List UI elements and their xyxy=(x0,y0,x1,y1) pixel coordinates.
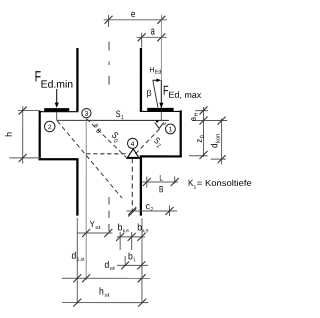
svg-text:1: 1 xyxy=(133,257,135,263)
svg-text:1,st: 1,st xyxy=(77,257,85,263)
svg-text:L: L xyxy=(159,174,163,183)
svg-text:b: b xyxy=(137,222,142,233)
svg-text:e: e xyxy=(131,9,136,20)
svg-text:1: 1 xyxy=(169,126,173,133)
horizontal dashed line to node 4 xyxy=(86,153,128,155)
svg-text:d: d xyxy=(209,143,220,148)
column right edge (upper) xyxy=(140,48,142,111)
label S2 rotated xyxy=(151,135,165,150)
column axis dashed (bottom) xyxy=(108,197,110,237)
force arrow F_Ed,max head xyxy=(159,103,163,108)
node label circle 4 xyxy=(128,138,138,148)
svg-text:B: B xyxy=(159,184,163,194)
right corbel right edge xyxy=(180,110,182,157)
force arrow F_Ed,min xyxy=(56,89,58,105)
svg-text:S: S xyxy=(116,109,121,120)
svg-text:Ed, max: Ed, max xyxy=(168,90,202,100)
vertical line from node 3 down (reinforcement axis) xyxy=(85,118,87,280)
force line / extension F_Ed,max xyxy=(160,15,162,80)
svg-text:st: st xyxy=(104,292,110,298)
dimension b_k,6 / b_k,5 xyxy=(116,222,149,250)
label S0 rotated xyxy=(108,130,123,145)
dimension h (left) xyxy=(4,106,40,164)
right side extension lower xyxy=(211,158,226,160)
left corbel top edge xyxy=(39,111,79,113)
svg-text:3: 3 xyxy=(85,111,89,118)
dimension h_st xyxy=(62,286,149,306)
extension line column right face (bottom) xyxy=(141,218,143,304)
dimension d_1,st / d_st xyxy=(62,251,150,283)
svg-text:H: H xyxy=(194,113,200,117)
node label circle 1 xyxy=(166,124,176,134)
left corbel bottom edge xyxy=(39,158,79,160)
svg-text:1: 1 xyxy=(194,185,197,191)
svg-text:h: h xyxy=(4,132,14,137)
dimension b1 xyxy=(117,251,148,269)
F_Ed,min line below plate xyxy=(56,112,58,121)
dimension line a_H / z0 xyxy=(188,106,208,159)
svg-text:= Konsoltiefe: = Konsoltiefe xyxy=(197,178,252,188)
dimension a xyxy=(137,26,167,48)
svg-text:a: a xyxy=(151,26,156,38)
dimension c2 xyxy=(126,201,177,216)
support base line xyxy=(126,157,141,159)
node 1 dot xyxy=(156,120,159,123)
resultant inclined line xyxy=(153,81,158,107)
svg-text:H: H xyxy=(150,65,155,74)
extension line column left face (bottom) xyxy=(76,218,78,304)
svg-text:st: st xyxy=(110,266,116,272)
svg-text:K: K xyxy=(188,178,193,188)
svg-text:d: d xyxy=(104,260,109,271)
dimension e xyxy=(104,9,167,27)
svg-text:a: a xyxy=(188,117,198,121)
svg-text:2: 2 xyxy=(150,207,153,213)
right corbel bottom edge xyxy=(140,155,182,157)
svg-text:β: β xyxy=(147,88,152,98)
node 4 support triangle xyxy=(127,149,138,157)
strut S0 dashed xyxy=(87,119,126,157)
right corbel top edge xyxy=(140,110,182,112)
svg-text:Ed: Ed xyxy=(155,70,162,76)
angle theta marks near node 3 xyxy=(91,123,103,135)
left corbel left edge xyxy=(39,111,41,160)
vertical dashed below node 4 xyxy=(131,158,133,212)
column left edge (upper) xyxy=(76,48,78,111)
svg-text:k,6: k,6 xyxy=(123,228,129,233)
dimension y_st xyxy=(77,219,113,237)
force H_Ed arrow xyxy=(152,79,158,81)
svg-text:b: b xyxy=(118,222,123,233)
svg-text:2: 2 xyxy=(48,124,52,131)
right side extension corbel bottom xyxy=(189,155,208,157)
svg-text:k,5: k,5 xyxy=(142,228,148,233)
strut S2 dashed xyxy=(135,129,160,155)
column left edge (lower) xyxy=(76,159,78,216)
svg-text:b: b xyxy=(128,251,133,262)
svg-text:z: z xyxy=(194,139,204,143)
left bearing plate xyxy=(44,108,69,111)
column axis dash-dot (top) xyxy=(108,41,110,84)
svg-text:st: st xyxy=(95,225,101,231)
small angle mark right of V xyxy=(164,123,166,125)
column right edge (lower) xyxy=(140,156,142,215)
strut diagonal from node 2 dashed xyxy=(57,121,122,198)
right bearing plate xyxy=(147,108,173,112)
node 1 V mark xyxy=(155,122,164,128)
node label circle 3 xyxy=(82,109,91,118)
node label circle 2 xyxy=(45,121,55,131)
tie (horizontal chord) xyxy=(57,119,169,121)
svg-text:kon: kon xyxy=(216,134,222,143)
right side extension line tie level xyxy=(192,120,227,122)
svg-text:Ed.min: Ed.min xyxy=(41,79,74,91)
svg-text:4: 4 xyxy=(131,141,135,148)
axis tick at bottom of node4 line xyxy=(128,208,136,216)
dimension line d_kon xyxy=(209,117,225,165)
right side extension line top surface xyxy=(195,110,208,112)
svg-text:h: h xyxy=(99,286,104,297)
svg-text:d: d xyxy=(71,251,76,262)
dimension L/B (bearing plate) xyxy=(141,174,178,195)
svg-text:Y: Y xyxy=(90,219,95,229)
